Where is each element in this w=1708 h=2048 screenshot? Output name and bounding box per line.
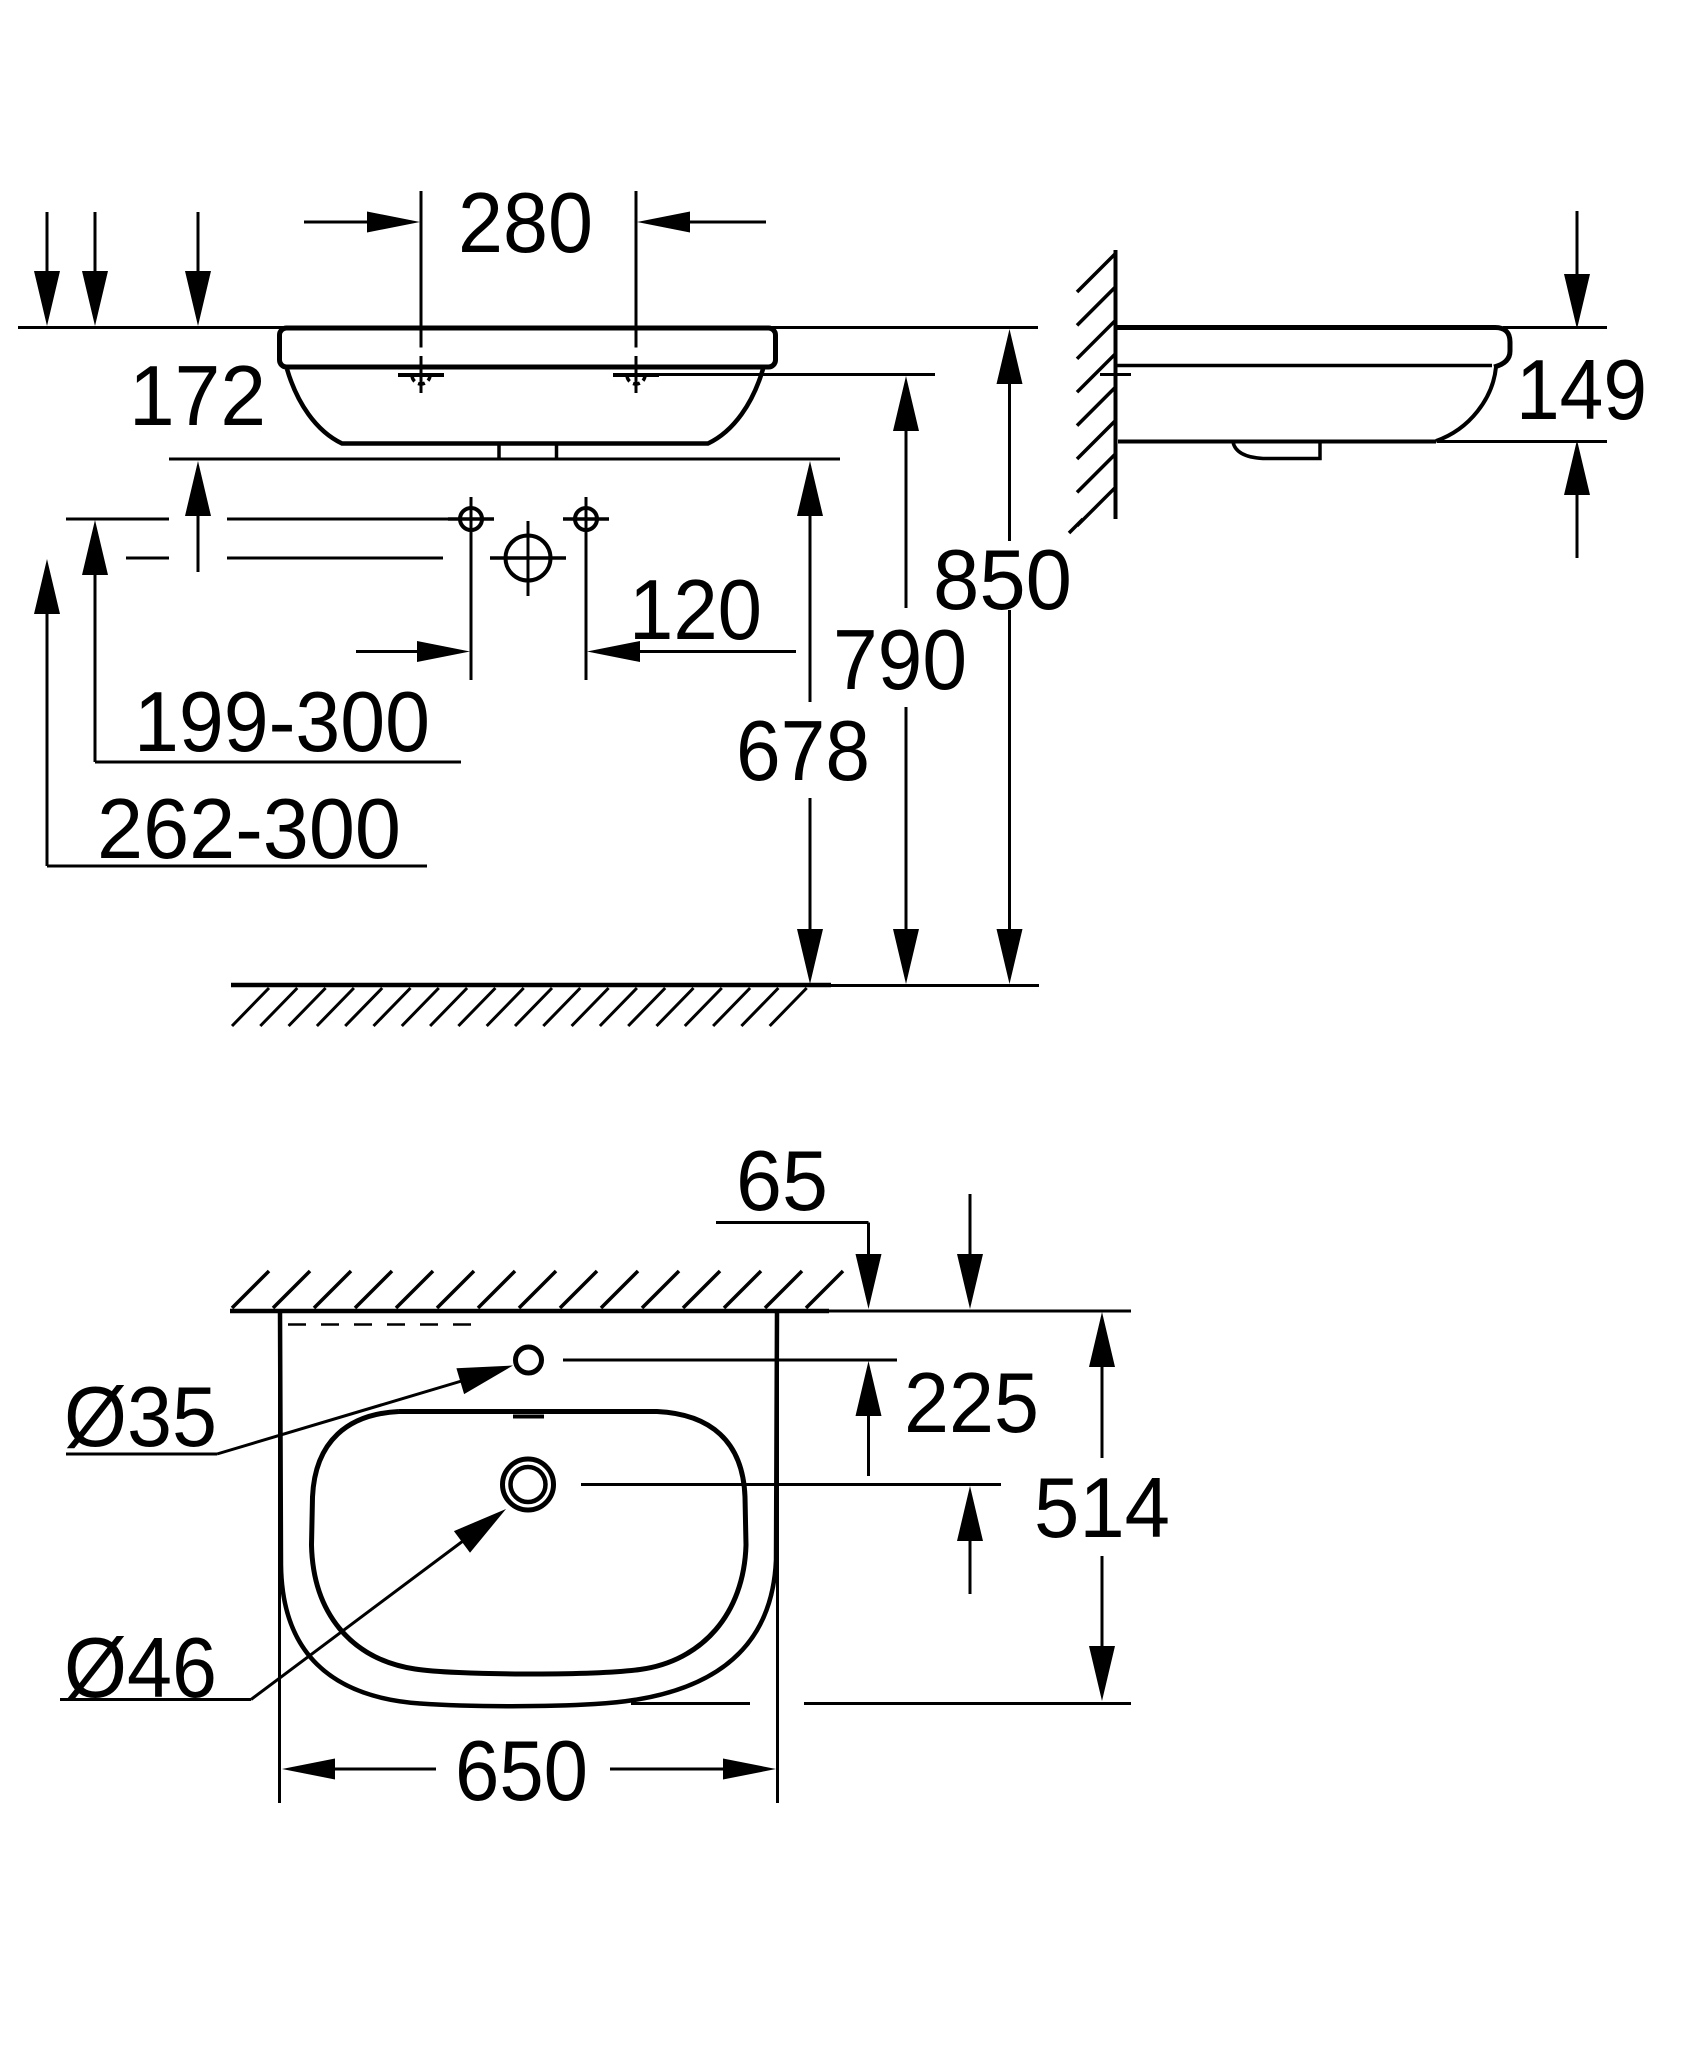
dim 65 hook and arrows	[716, 1223, 882, 1477]
underline 199-300	[95, 761, 461, 764]
basin side bowl curve	[1436, 367, 1496, 441]
arrow 280 right	[637, 212, 766, 233]
reference line fixing hole level	[659, 373, 935, 376]
basin rim front view	[280, 328, 776, 367]
label 149	[1516, 343, 1647, 438]
arrow 199-300 up	[82, 520, 108, 762]
arrow 120 left	[356, 641, 470, 662]
overflow notch plan	[513, 1415, 544, 1419]
svg-text:172: 172	[129, 349, 266, 444]
label 172	[129, 349, 266, 444]
wall line side view	[1114, 250, 1118, 519]
down arrow left (262-300 chain)	[34, 212, 60, 326]
arrow 280 left	[304, 212, 420, 233]
dim 850	[997, 329, 1023, 984]
underline 262-300	[47, 865, 427, 868]
reference line drain hole	[126, 557, 443, 560]
dim 149	[1564, 211, 1590, 558]
down arrow mid (199-300 chain)	[82, 212, 108, 326]
dim 650	[282, 1759, 776, 1780]
supply hole left	[448, 497, 494, 680]
ref line side top	[1503, 326, 1607, 329]
reference line basin underside	[169, 458, 840, 461]
label 120	[629, 563, 762, 658]
drain stub front view	[499, 444, 557, 459]
basin side profile top	[1116, 328, 1510, 368]
arrow 120 right	[587, 641, 796, 662]
wall line plan view	[230, 1309, 1131, 1314]
svg-text:Ø35: Ø35	[64, 1370, 217, 1465]
dim ext line left fixing hole	[420, 191, 423, 393]
short line at wall	[1100, 373, 1131, 376]
basin side bottom line	[1118, 440, 1436, 444]
ref line side bottom	[1437, 440, 1607, 443]
label 262-300	[97, 782, 401, 877]
drain hole plan	[503, 1459, 554, 1510]
arrow 262-300 up	[34, 559, 60, 866]
svg-text:120: 120	[629, 563, 762, 658]
label 850	[933, 533, 1072, 628]
svg-text:678: 678	[736, 704, 870, 799]
svg-text:262-300: 262-300	[97, 782, 401, 877]
svg-text:850: 850	[933, 533, 1072, 628]
ground line	[231, 983, 1039, 988]
label diameter 46	[64, 1621, 217, 1716]
ground hatching	[232, 988, 807, 1026]
drain reference line	[581, 1483, 1001, 1486]
ext line 650 right	[776, 1311, 779, 1803]
label 65	[736, 1134, 828, 1229]
label 514	[1034, 1461, 1170, 1556]
tap hole plan	[516, 1347, 542, 1373]
down arrow right (172 chain)	[185, 212, 211, 326]
label 650	[455, 1724, 588, 1819]
dim 225 arrows	[957, 1194, 983, 1594]
label 199-300	[134, 675, 430, 770]
label 790	[833, 613, 967, 708]
tap hole reference line	[563, 1359, 897, 1362]
svg-text:650: 650	[455, 1724, 588, 1819]
ext line 650 left	[278, 1311, 281, 1803]
basin side rim underside	[1116, 364, 1492, 368]
dim 514	[1089, 1312, 1115, 1701]
dim 678	[797, 461, 823, 984]
svg-text:199-300: 199-300	[134, 675, 430, 770]
fixing hole symbol right	[613, 375, 659, 384]
svg-text:149: 149	[1516, 343, 1647, 438]
leader diameter 46	[60, 1509, 506, 1700]
top reference line (rim level)	[18, 326, 1038, 329]
hidden dashed line basin back edge	[288, 1323, 484, 1326]
dim ext line right fixing hole	[635, 191, 638, 393]
drain hole front view	[490, 521, 566, 596]
wall hatching plan view	[232, 1271, 843, 1308]
basin inner bowl outline plan	[312, 1412, 747, 1674]
basin side drain stub	[1233, 442, 1320, 459]
fixing hole symbol left	[398, 375, 444, 384]
svg-text:225: 225	[904, 1356, 1039, 1451]
label 678	[736, 704, 870, 799]
wall hatching side view	[1069, 253, 1116, 533]
svg-text:280: 280	[458, 176, 593, 271]
front edge reference line	[631, 1702, 1131, 1705]
label 280	[458, 176, 593, 271]
basin bowl front outline	[287, 369, 763, 444]
svg-text:514: 514	[1034, 1461, 1170, 1556]
dim 790	[893, 376, 919, 984]
leader diameter 35	[66, 1366, 513, 1455]
reference line supply holes	[66, 518, 448, 521]
basin outer outline plan	[280, 1311, 777, 1706]
svg-text:65: 65	[736, 1134, 828, 1229]
label 225	[904, 1356, 1039, 1451]
arrow 172 up	[185, 461, 211, 572]
svg-text:Ø46: Ø46	[64, 1621, 217, 1716]
label diameter 35	[64, 1370, 217, 1465]
supply hole right	[563, 497, 609, 680]
